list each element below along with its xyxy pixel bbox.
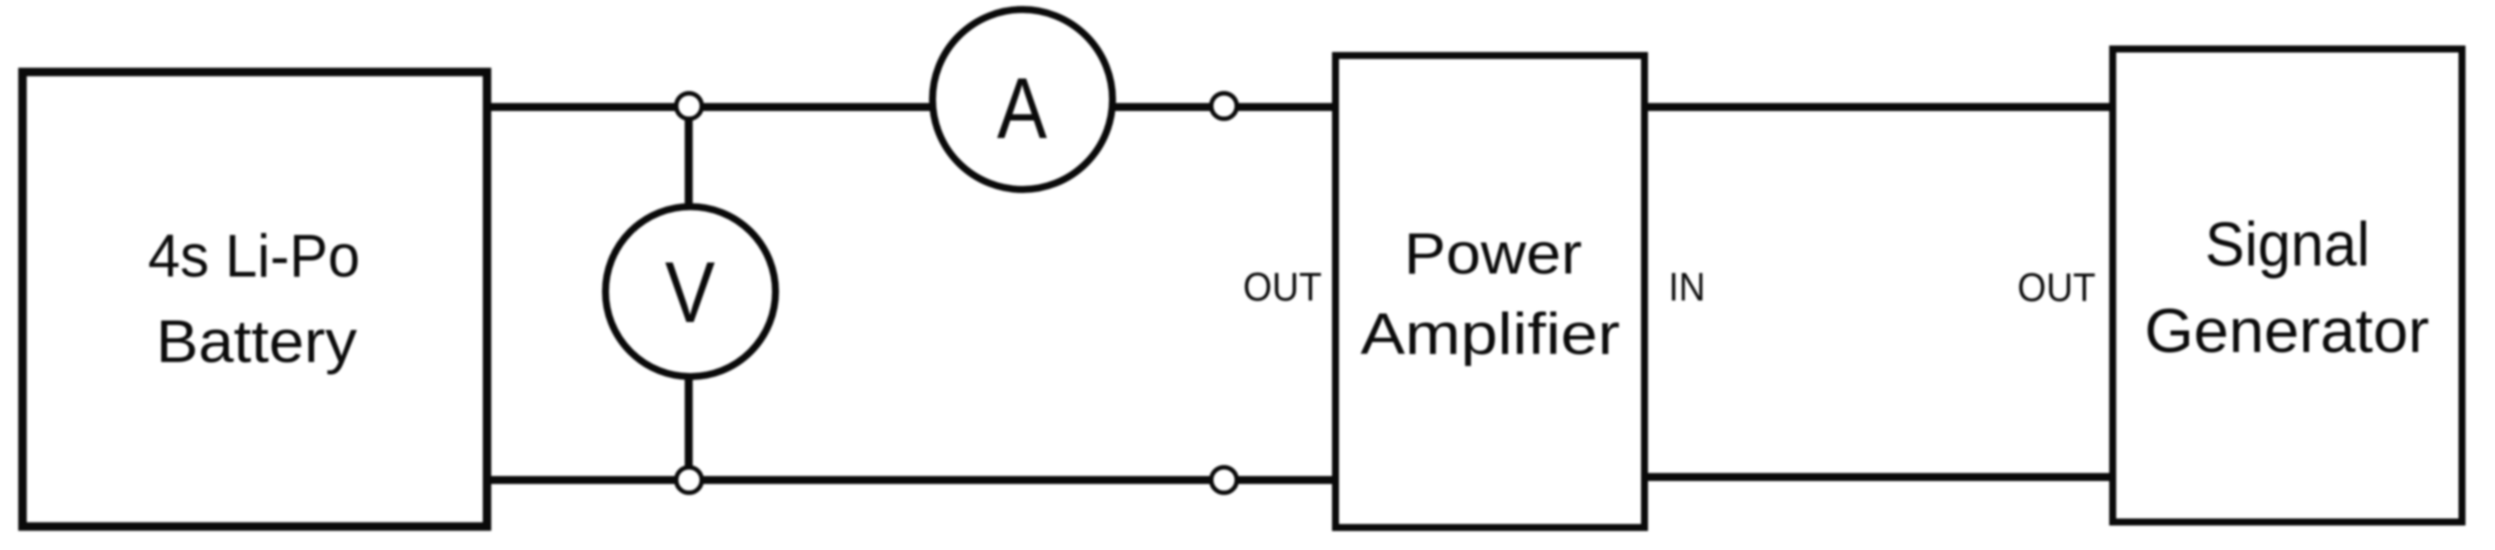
svg-text:Signal: Signal <box>2205 210 2370 279</box>
signal generator box <box>2113 49 2462 522</box>
svg-text:Amplifier: Amplifier <box>1361 302 1621 367</box>
power amplifier box <box>1336 56 1645 528</box>
svg-text:A: A <box>997 61 1048 157</box>
svg-text:IN: IN <box>1669 265 1706 309</box>
svg-text:Generator: Generator <box>2145 297 2430 366</box>
voltmeter V1 <box>606 207 776 377</box>
svg-text:Battery: Battery <box>156 308 357 375</box>
svg-text:OUT: OUT <box>2017 266 2095 310</box>
svg-text:Power: Power <box>1404 222 1582 287</box>
wire bottom battery to power amplifier <box>487 476 1336 484</box>
battery box <box>23 72 488 527</box>
wire power amplifier to signal generator bottom <box>1645 473 2113 481</box>
ammeter A1 <box>933 10 1113 190</box>
wire power amplifier to signal generator top <box>1645 103 2113 111</box>
wire vertical voltmeter bottom <box>685 373 693 480</box>
node bottom-right <box>1211 467 1237 493</box>
wire vertical voltmeter top <box>685 106 693 210</box>
node bottom-left <box>676 467 702 493</box>
wire ammeter to power amplifier <box>1110 103 1336 111</box>
svg-text:OUT: OUT <box>1243 265 1322 309</box>
svg-text:4s Li-Po: 4s Li-Po <box>148 223 360 290</box>
node top-left <box>676 93 702 119</box>
wire battery top to ammeter <box>487 103 935 111</box>
node top-right <box>1211 93 1237 119</box>
svg-text:V: V <box>665 245 715 341</box>
